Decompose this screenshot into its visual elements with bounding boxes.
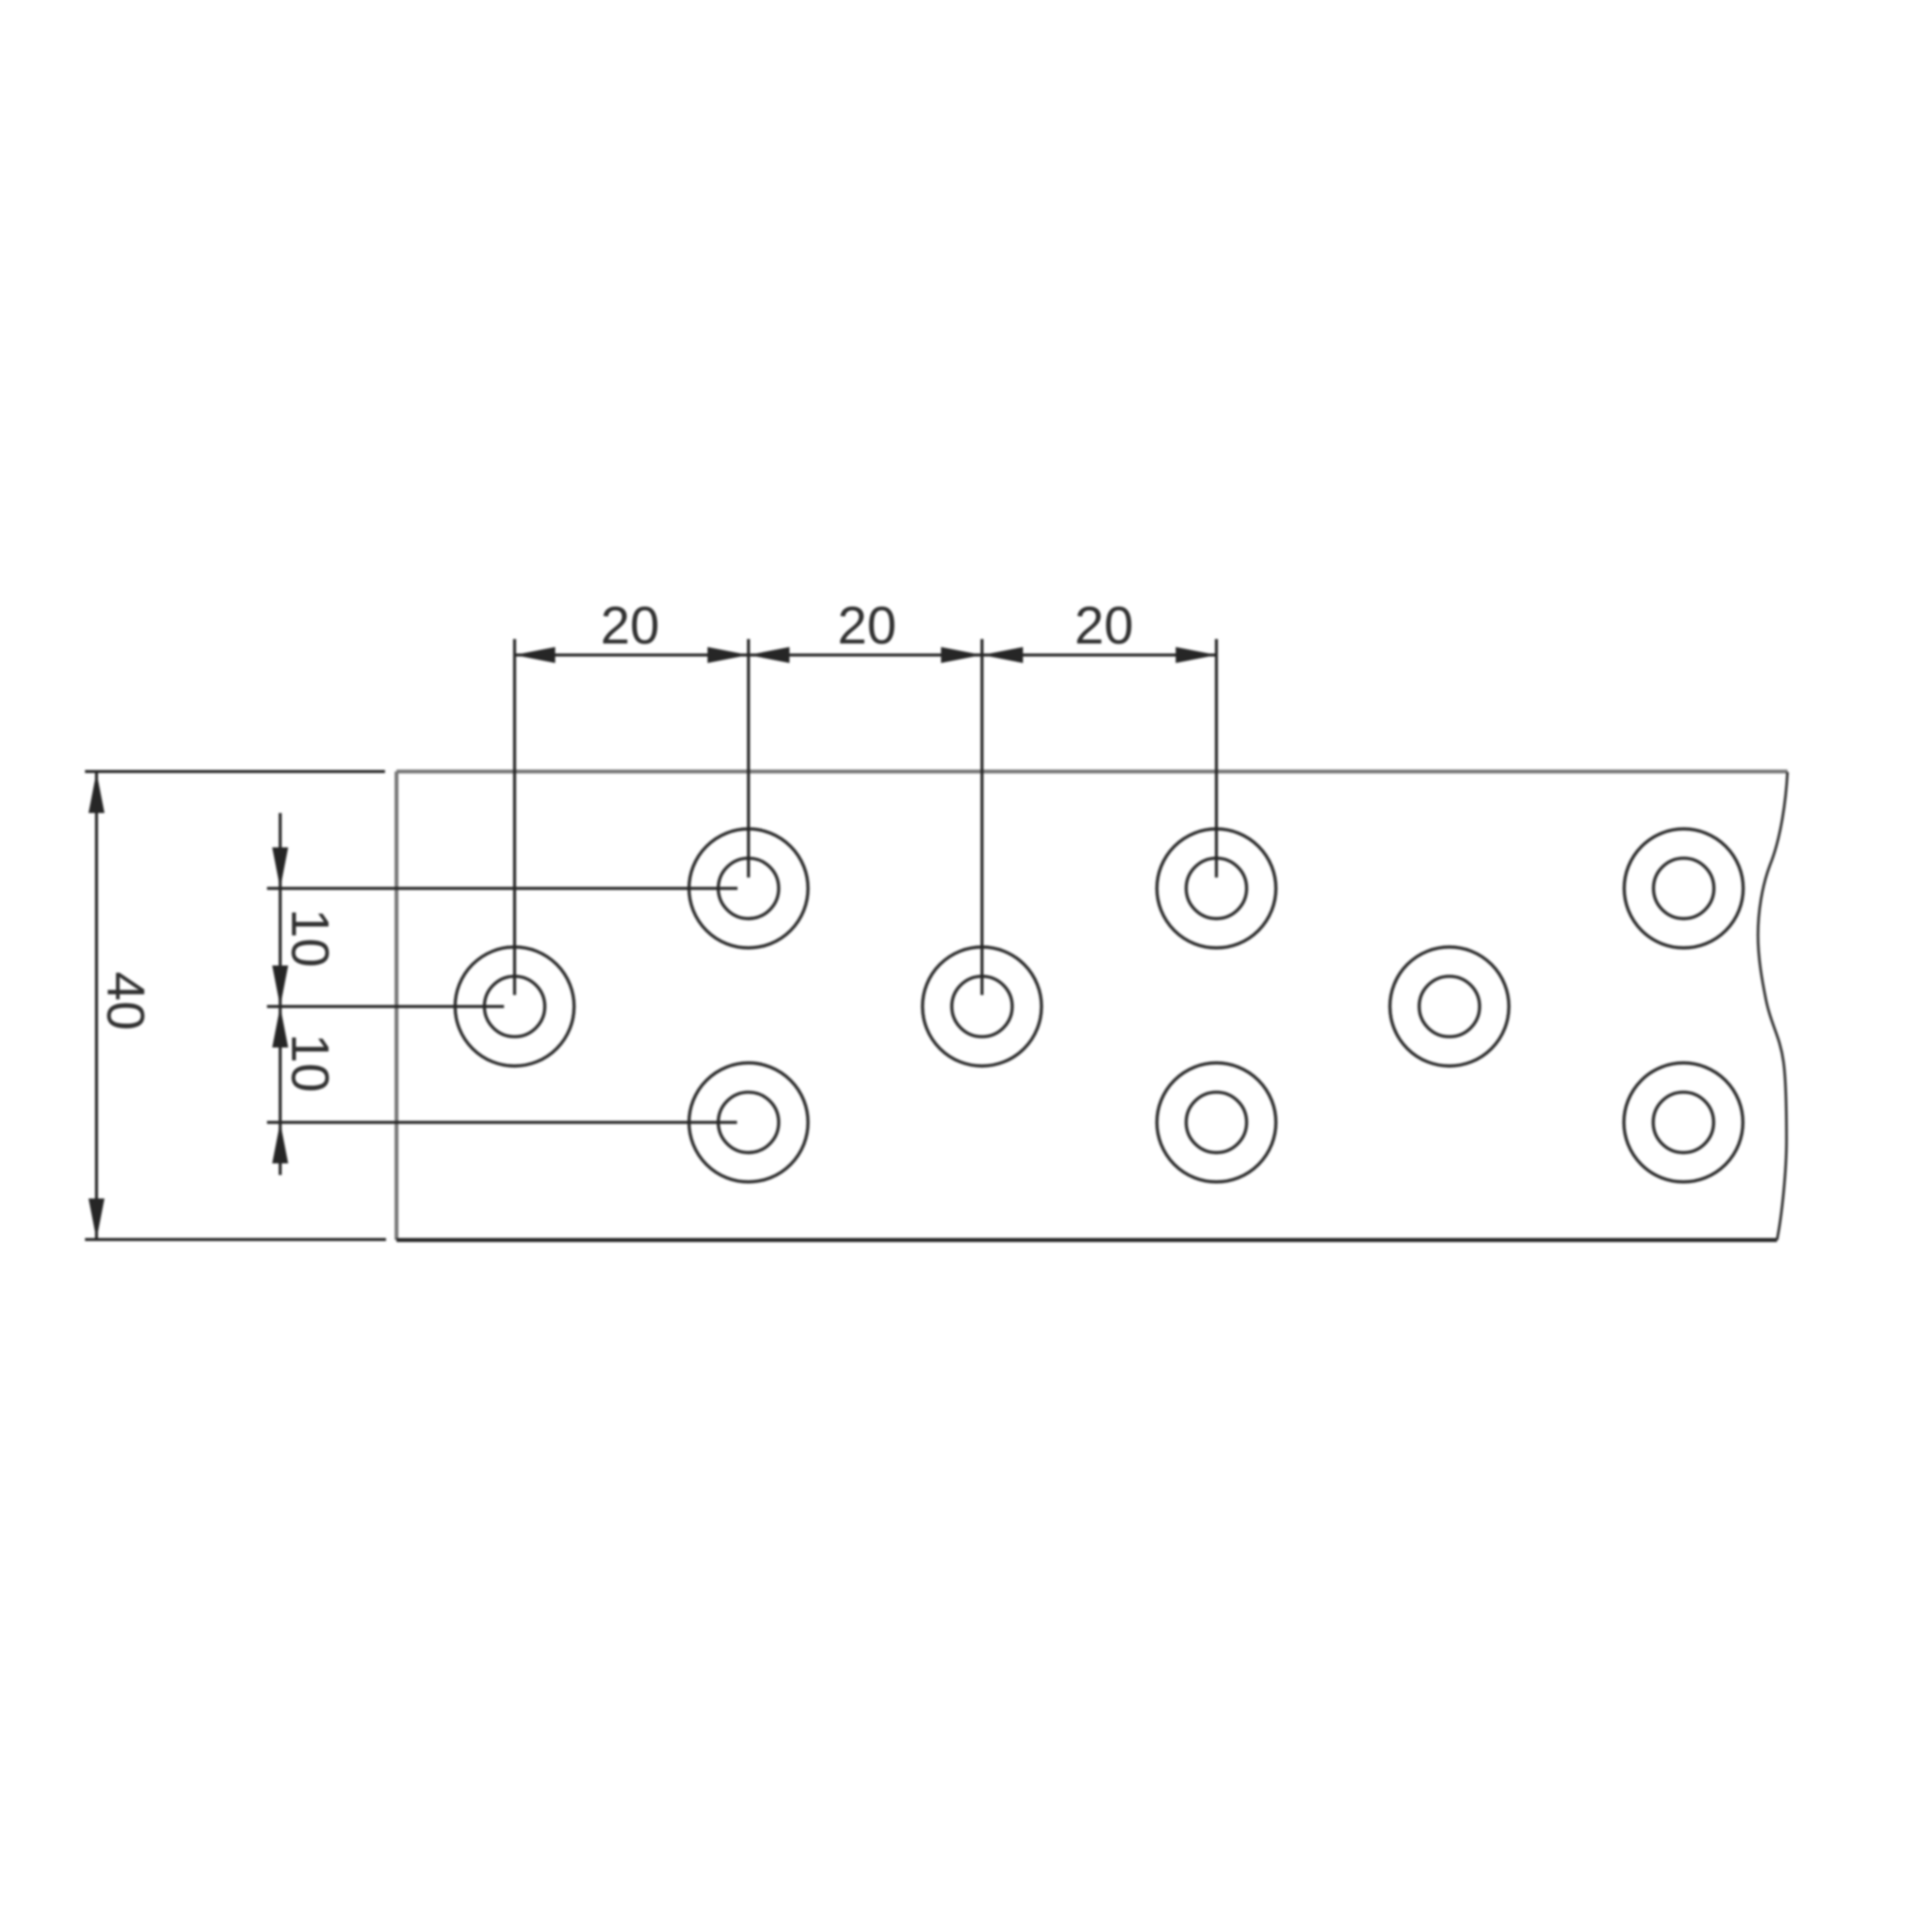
arrow down at bottom (40) bbox=[89, 1199, 105, 1240]
arrow up to row bottom bbox=[272, 1122, 288, 1163]
hole B3 (mid row, col5) outer bbox=[1390, 947, 1509, 1066]
hole A1 inner bbox=[718, 858, 778, 918]
hole A2 (top row, col4) outer bbox=[1157, 829, 1276, 948]
extension line col4 bbox=[1215, 639, 1218, 878]
arrow left at 982 bbox=[982, 647, 1023, 663]
dimension 40 line bbox=[95, 772, 98, 1240]
leader row top bbox=[267, 887, 738, 890]
svg-text:40: 40 bbox=[96, 972, 155, 1031]
arrow up at top (40) bbox=[89, 772, 105, 813]
hole C2 (bottom row, col4) outer bbox=[1157, 1063, 1276, 1182]
leader row mid bbox=[267, 1005, 504, 1008]
plate bottom edge bbox=[397, 1238, 1778, 1242]
extension line col1 bbox=[513, 639, 516, 995]
plate right break (wavy) edge bbox=[1758, 772, 1788, 1240]
arrow down to row mid bbox=[272, 966, 288, 1007]
extension line bottom (40) bbox=[85, 1238, 386, 1241]
svg-text:10: 10 bbox=[280, 909, 339, 968]
arrow left at 514 bbox=[514, 647, 555, 663]
svg-text:20: 20 bbox=[1075, 597, 1134, 656]
hole C3 inner bbox=[1653, 1092, 1713, 1152]
arrow left at 748 bbox=[749, 647, 790, 663]
hole C1 inner bbox=[718, 1092, 778, 1152]
extension line col2 bbox=[747, 639, 750, 878]
dimension 20 line bbox=[514, 654, 1216, 657]
hole B1 inner bbox=[484, 976, 544, 1036]
arrow right at 982 bbox=[941, 647, 982, 663]
plate left edge bbox=[395, 772, 399, 1241]
hole C1 (bottom row, col2) outer bbox=[689, 1063, 808, 1182]
svg-text:20: 20 bbox=[601, 597, 660, 656]
hole B1 (mid row, col1) outer bbox=[455, 947, 574, 1066]
dimension 10 line bbox=[279, 813, 282, 1175]
svg-text:10: 10 bbox=[280, 1034, 339, 1093]
hole C2 inner bbox=[1186, 1092, 1246, 1152]
arrow up to row mid bbox=[272, 1007, 288, 1048]
hole C3 (bottom row, col6) outer bbox=[1624, 1063, 1743, 1182]
leader row bottom bbox=[267, 1121, 737, 1124]
arrow down to row top bbox=[272, 847, 288, 888]
arrow right at 748 bbox=[708, 647, 749, 663]
hole B2 inner bbox=[952, 976, 1012, 1036]
hole A2 inner bbox=[1186, 858, 1246, 918]
plate top edge bbox=[397, 770, 1788, 774]
extension line top (40) bbox=[85, 770, 385, 773]
hole B3 inner bbox=[1419, 976, 1479, 1036]
svg-text:20: 20 bbox=[838, 597, 897, 656]
hole A3 inner bbox=[1654, 858, 1714, 918]
hole B2 (mid row, col3) outer bbox=[923, 947, 1042, 1066]
extension line col3 bbox=[981, 639, 984, 995]
hole A1 (top row, col2) outer bbox=[689, 829, 808, 948]
arrow right at 1216 bbox=[1176, 647, 1217, 663]
hole A3 (top row, col6) outer bbox=[1624, 829, 1743, 948]
